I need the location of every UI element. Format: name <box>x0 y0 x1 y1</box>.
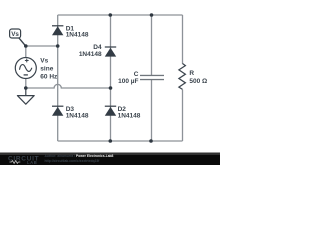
svg-text:http://circuitlab.com/c/xxxtrt: http://circuitlab.com/c/xxxtrtedq23f <box>45 159 101 163</box>
svg-text:60 Hz: 60 Hz <box>40 73 58 80</box>
voltage source sine symbol <box>20 65 32 72</box>
wire capacitor branch top <box>151 15 153 75</box>
wire bottom rail (- output) <box>58 140 183 142</box>
svg-text:C: C <box>134 71 139 78</box>
node dot bottom rail cap branch <box>149 139 153 143</box>
node dot right branch AC2 <box>109 86 113 90</box>
diode D3 triangle <box>52 107 63 116</box>
voltage source plus sign <box>25 59 29 63</box>
capacitor C bottom plate <box>140 79 164 80</box>
wire source bottom stub <box>25 79 27 88</box>
svg-text:500 Ω: 500 Ω <box>189 78 207 85</box>
svg-text:Vs: Vs <box>40 57 48 64</box>
wire resistor branch bottom <box>182 90 184 141</box>
flag Vs leader line <box>19 38 26 46</box>
svg-text:1N4148: 1N4148 <box>66 112 89 119</box>
diode D1 cathode bar <box>52 25 63 26</box>
watermark logo resistor zigzag <box>10 161 21 164</box>
wire resistor branch top <box>182 15 184 64</box>
node dot source bottom <box>24 86 28 90</box>
svg-text:R: R <box>189 70 194 77</box>
diode D4 triangle <box>105 48 116 57</box>
svg-text:1N4148: 1N4148 <box>79 51 102 58</box>
capacitor C top plate <box>140 75 164 76</box>
diode D2 triangle <box>105 107 116 116</box>
ground symbol <box>17 88 34 104</box>
diode D1 triangle <box>52 26 63 35</box>
svg-text:LAB: LAB <box>27 160 37 165</box>
svg-text:Author: alhamurra / Power Elec: Author: alhamurra / Power Electronics-La… <box>45 154 114 158</box>
wire right bridge branch <box>110 15 112 141</box>
svg-text:Vs: Vs <box>11 31 19 38</box>
wire top rail (+ output) <box>58 14 183 16</box>
diode D2 cathode bar <box>105 106 116 107</box>
node dot top rail right branch <box>109 13 113 17</box>
node dot source top <box>24 44 28 48</box>
diode D4 cathode bar <box>105 46 116 47</box>
node dot left branch AC1 <box>56 44 60 48</box>
svg-text:1N4148: 1N4148 <box>118 113 141 120</box>
node dot top rail cap branch <box>150 13 154 17</box>
node dot bottom rail right branch <box>109 139 113 143</box>
svg-text:1N4148: 1N4148 <box>66 31 89 38</box>
wire node B rail with hop over left branch <box>26 84 111 88</box>
diode D3 cathode bar <box>52 106 63 107</box>
flag Vs box <box>10 29 21 38</box>
wire source top stub <box>25 46 27 57</box>
svg-text:100 µF: 100 µF <box>118 78 138 85</box>
voltage source minus sign <box>24 74 28 76</box>
wire left bridge branch <box>57 15 59 141</box>
voltage source V1 circle <box>15 58 36 79</box>
resistor R zigzag <box>179 64 186 90</box>
watermark banner background <box>0 153 220 166</box>
wire node A rail (source top to bridge) <box>26 45 58 47</box>
wire capacitor branch bottom <box>151 80 153 141</box>
svg-text:sine: sine <box>40 65 53 72</box>
